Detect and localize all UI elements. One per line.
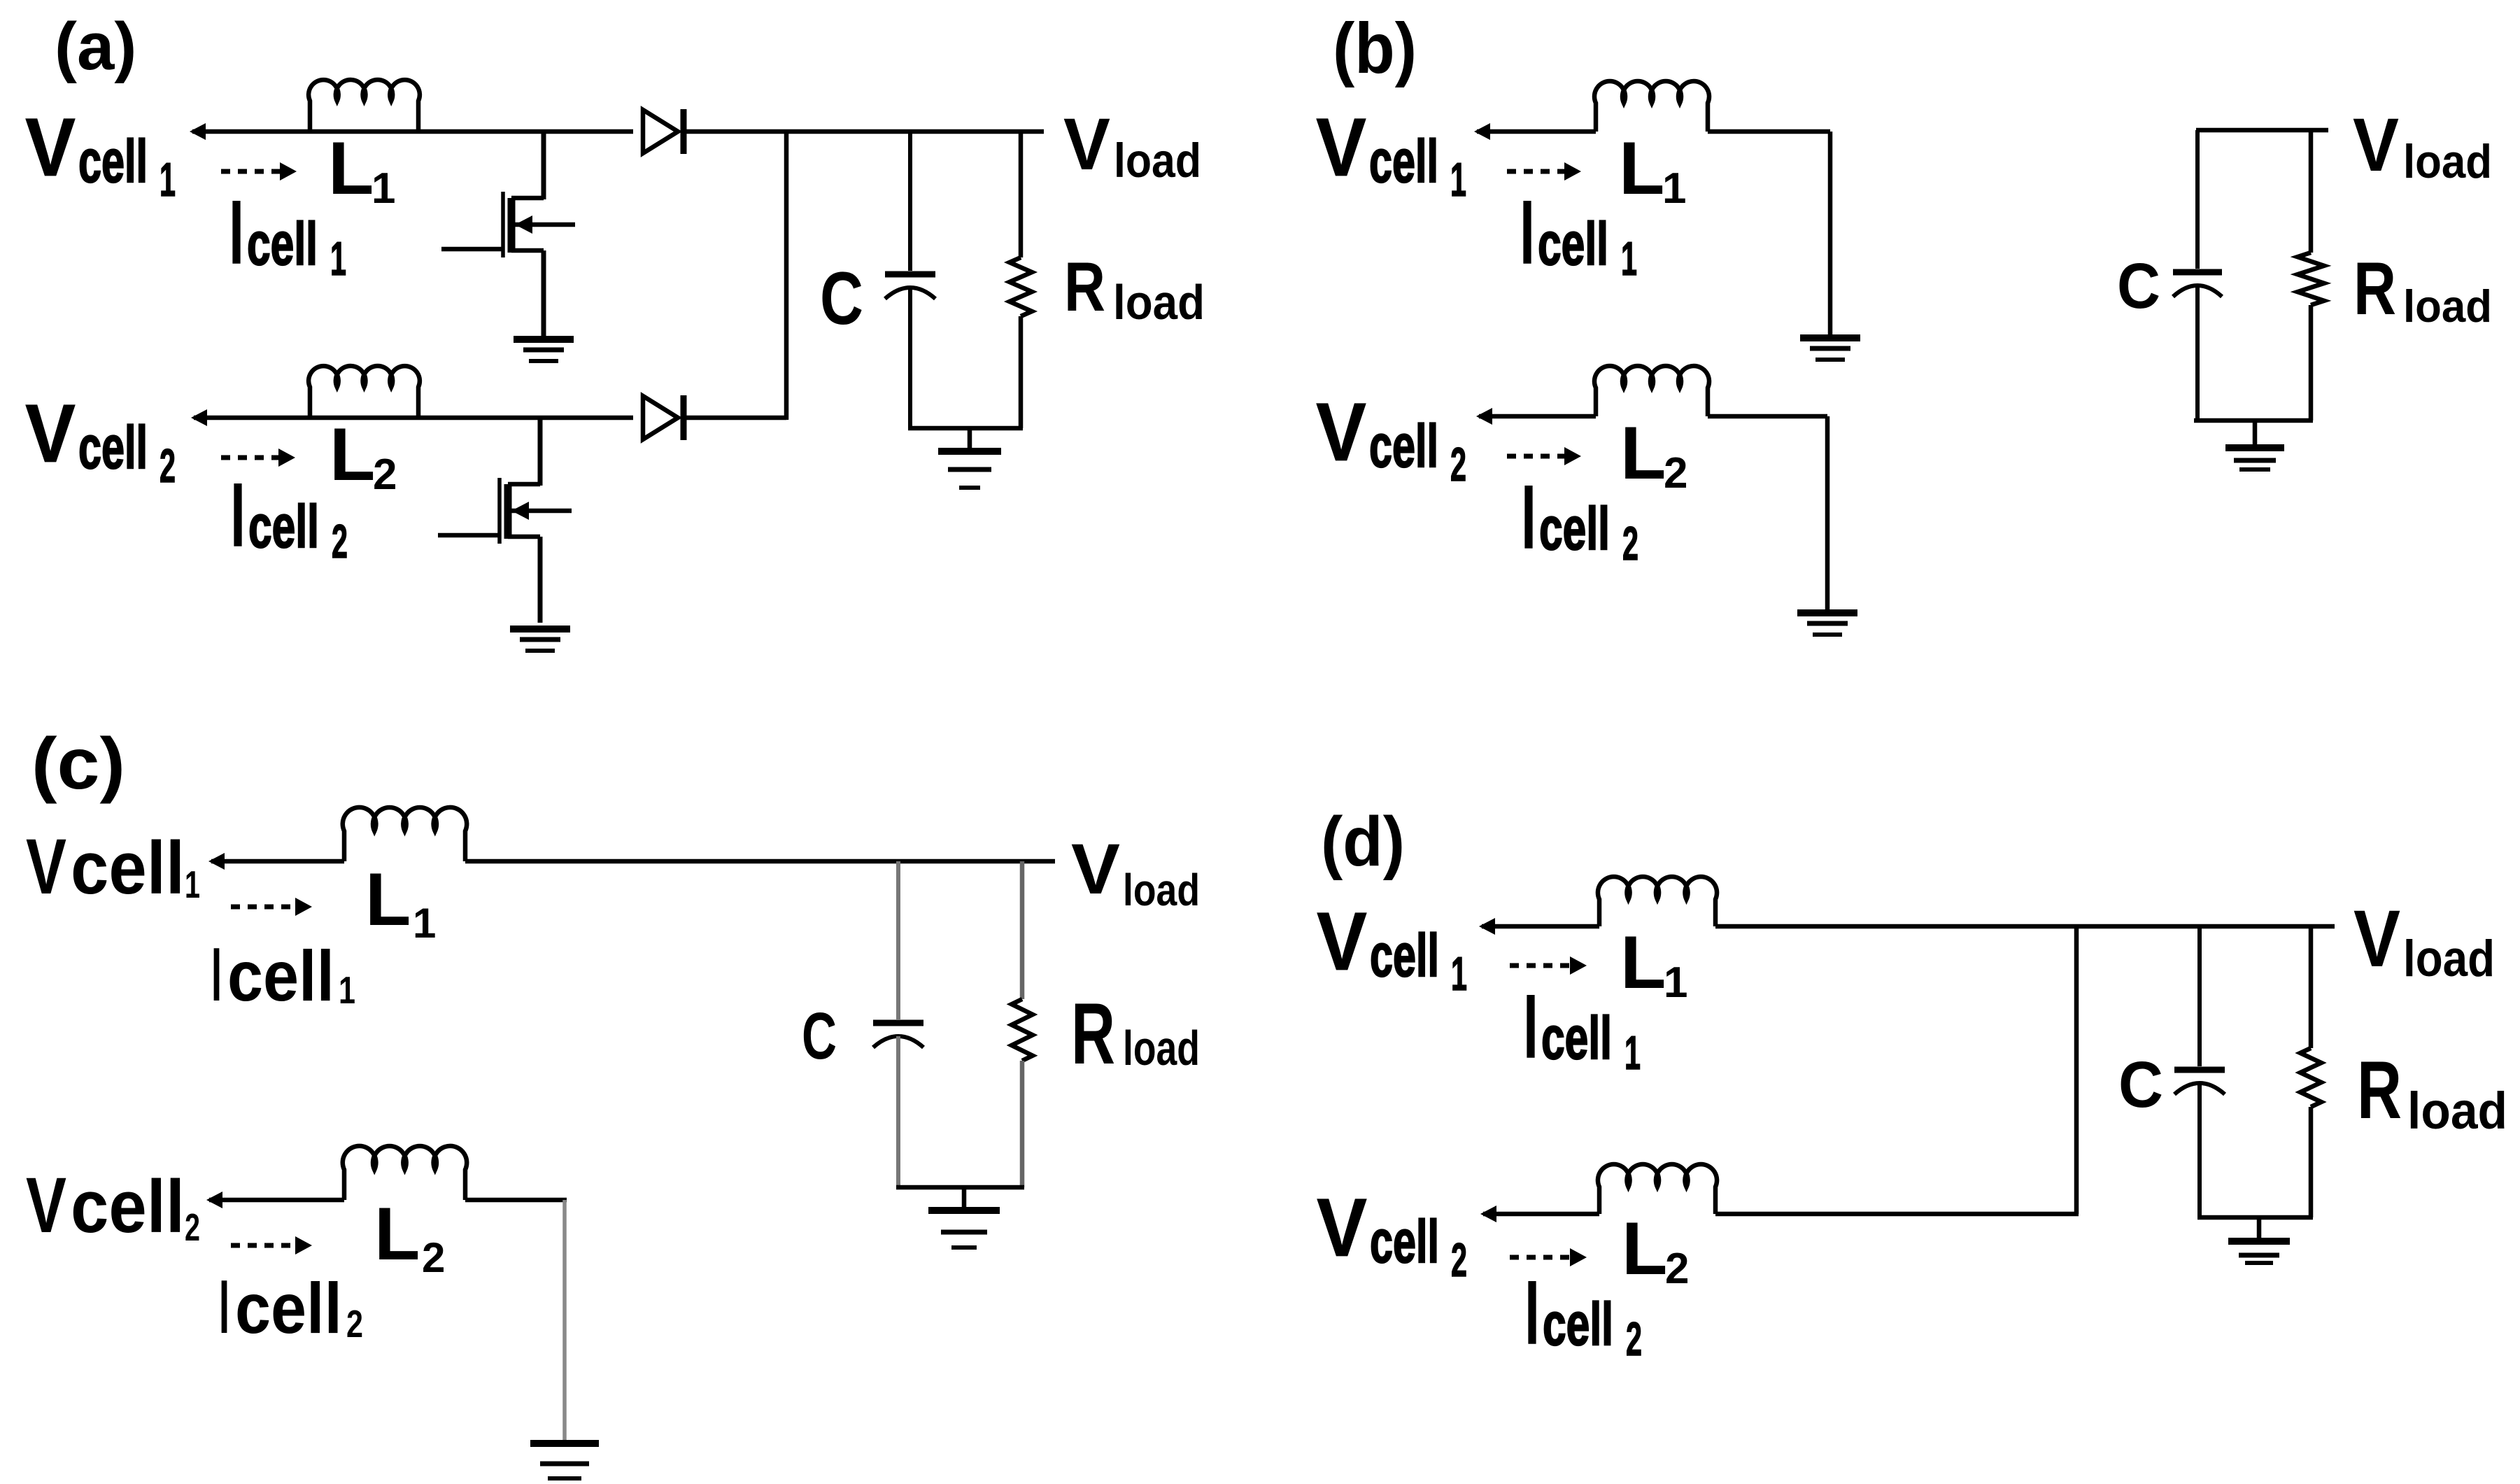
svg-text:L: L [330,412,375,496]
svg-text:cell: cell [1543,1291,1613,1358]
svg-text:C: C [2117,250,2160,322]
svg-text:cell: cell [1369,413,1438,480]
svg-text:V: V [1071,829,1120,909]
svg-text:I: I [219,1264,229,1350]
svg-text:1: 1 [330,232,346,285]
svg-text:2: 2 [1665,1245,1689,1293]
svg-text:2: 2 [1626,1313,1642,1366]
svg-text:2: 2 [185,1206,200,1249]
svg-text:R: R [1071,986,1115,1082]
svg-text:L: L [328,126,374,210]
svg-text:1: 1 [1621,232,1637,285]
svg-text:cell: cell [248,493,319,560]
svg-text:2: 2 [332,515,348,568]
svg-text:cell: cell [235,1269,342,1348]
svg-text:2: 2 [1664,449,1687,497]
svg-text:C: C [2118,1048,2163,1121]
svg-text:cell: cell [78,414,148,481]
svg-text:2: 2 [160,439,176,493]
svg-text:1: 1 [1450,153,1466,206]
svg-text:I: I [1524,977,1538,1077]
svg-text:load: load [1123,865,1200,915]
svg-text:V: V [2353,894,2400,984]
svg-text:I: I [1522,467,1536,567]
svg-text:V: V [25,101,76,194]
svg-text:L: L [1619,126,1664,210]
svg-text:(d): (d) [1321,803,1405,881]
svg-text:L: L [365,857,411,941]
svg-text:cell: cell [1541,1005,1612,1072]
svg-text:I: I [231,465,245,565]
svg-text:cell: cell [227,936,334,1016]
svg-text:load: load [1114,134,1201,188]
svg-text:2: 2 [346,1302,363,1345]
svg-text:I: I [1520,183,1534,283]
svg-text:R: R [2353,246,2396,330]
svg-text:1: 1 [1451,947,1467,1001]
svg-text:V: V [2353,102,2399,187]
svg-text:L: L [1620,920,1666,1004]
svg-text:L: L [1620,411,1666,495]
svg-text:2: 2 [1450,438,1466,491]
svg-text:1: 1 [339,968,355,1012]
svg-text:cell: cell [1370,922,1439,989]
svg-text:V: V [1316,101,1366,194]
svg-text:(a): (a) [55,9,136,84]
svg-text:V: V [1317,896,1367,988]
svg-text:R: R [2357,1044,2402,1136]
svg-text:1: 1 [371,164,395,213]
svg-text:1: 1 [160,153,176,206]
svg-text:load: load [1113,275,1205,330]
svg-text:I: I [229,183,243,283]
svg-text:2: 2 [1622,517,1638,570]
svg-text:(b): (b) [1333,8,1417,88]
svg-text:cell: cell [1538,211,1608,278]
svg-text:V: V [1063,104,1110,185]
svg-text:I: I [1525,1263,1539,1363]
svg-text:load: load [2407,1082,2507,1140]
svg-text:R: R [1064,248,1105,325]
svg-text:load: load [2403,281,2492,332]
svg-text:1: 1 [1662,164,1686,213]
svg-text:I: I [211,932,222,1017]
svg-text:load: load [2403,931,2495,987]
svg-text:1: 1 [185,863,200,906]
svg-text:1: 1 [1624,1026,1641,1080]
svg-text:cell: cell [78,128,148,195]
svg-text:cell: cell [247,211,318,278]
svg-text:cell: cell [1370,1208,1439,1275]
svg-text:2: 2 [373,451,397,499]
svg-text:cell: cell [71,1164,185,1248]
svg-text:1: 1 [413,900,436,947]
svg-text:V: V [1316,386,1366,479]
svg-text:V: V [26,823,66,910]
svg-text:V: V [1317,1182,1367,1274]
svg-text:C: C [820,256,863,340]
svg-text:C: C [802,999,837,1073]
svg-text:L: L [1622,1206,1667,1290]
svg-text:cell: cell [1369,128,1438,195]
svg-text:load: load [1123,1021,1200,1075]
svg-text:V: V [25,388,76,480]
svg-text:load: load [2403,135,2492,188]
svg-text:L: L [374,1192,420,1275]
svg-text:(c): (c) [31,723,125,805]
svg-text:2: 2 [1451,1234,1467,1287]
svg-text:cell: cell [1539,495,1610,563]
svg-text:1: 1 [1664,959,1687,1007]
svg-text:2: 2 [422,1234,445,1281]
svg-text:cell: cell [71,826,185,910]
svg-text:V: V [26,1161,66,1249]
